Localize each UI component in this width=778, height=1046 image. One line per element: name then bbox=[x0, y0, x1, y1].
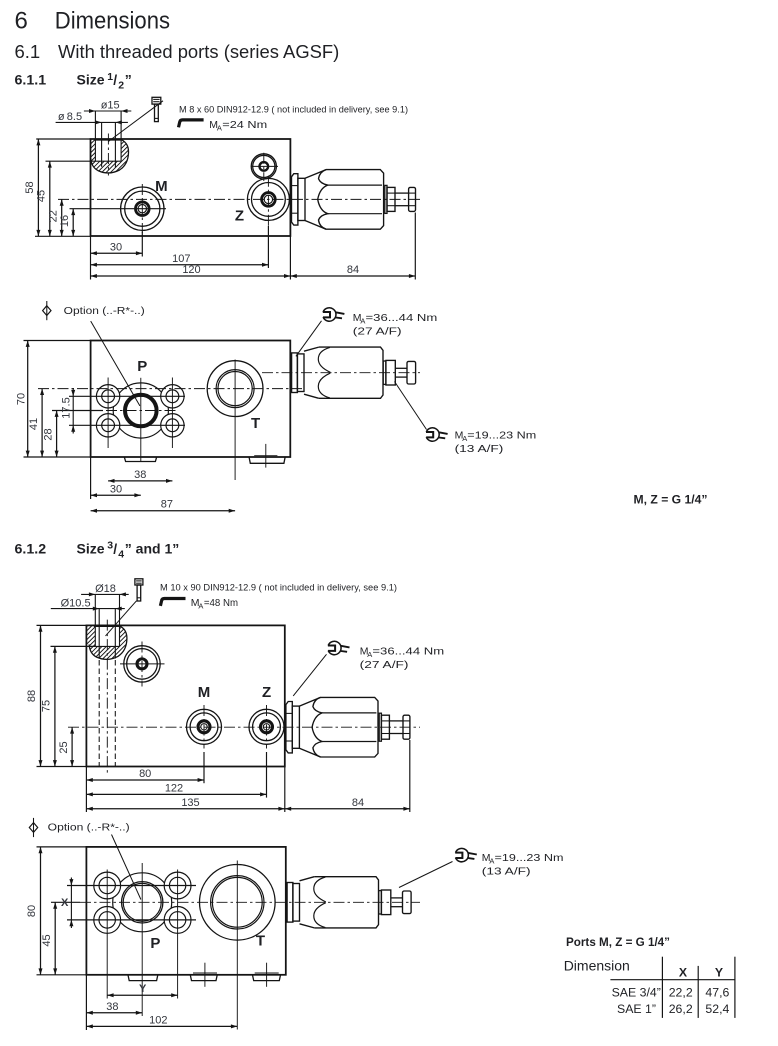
svg-text:T: T bbox=[256, 933, 265, 950]
dim 135 bbox=[85, 767, 87, 813]
svg-text:135: 135 bbox=[181, 797, 199, 809]
allen key icon (drawing 3) bbox=[160, 599, 185, 606]
svg-text:A: A bbox=[217, 123, 222, 132]
svg-text:(13 A/F): (13 A/F) bbox=[482, 865, 531, 877]
svg-text:=36...44 Nm: =36...44 Nm bbox=[366, 312, 438, 324]
svg-text:26,2: 26,2 bbox=[669, 1002, 693, 1016]
dim 25 bbox=[71, 727, 73, 766]
svg-text:2: 2 bbox=[118, 80, 124, 92]
leader line to counterbore bbox=[108, 101, 163, 142]
svg-text:45: 45 bbox=[36, 190, 48, 202]
svg-text:16: 16 bbox=[59, 215, 71, 227]
dim 30 (drawing 1) bbox=[141, 232, 143, 257]
dim 30 (drawing 2) bbox=[90, 457, 92, 499]
svg-text:6.1.1: 6.1.1 bbox=[15, 72, 47, 88]
mounting tabs (drawing 4) bbox=[128, 975, 158, 981]
svg-text:M 8 x 60 DIN912-12.9 ( not inc: M 8 x 60 DIN912-12.9 ( not included in d… bbox=[179, 104, 408, 114]
leader to counterbore (drawing 3) bbox=[106, 601, 137, 636]
dim diameter 8.5 bbox=[56, 121, 128, 123]
svg-text:=19...23 Nm: =19...23 Nm bbox=[495, 852, 564, 864]
dim 16 bbox=[70, 208, 167, 210]
svg-text:Z: Z bbox=[235, 208, 244, 225]
svg-text:SAE 3/4”: SAE 3/4” bbox=[612, 985, 661, 999]
svg-text:17.5: 17.5 bbox=[61, 397, 73, 418]
svg-text:/: / bbox=[113, 72, 117, 88]
mounting tab 1 (drawing 2) bbox=[124, 457, 156, 461]
port P thick ring bbox=[125, 395, 157, 427]
svg-text:Size: Size bbox=[77, 72, 105, 88]
svg-text:Ø18: Ø18 bbox=[95, 583, 116, 595]
leader option to P (drawing 4) bbox=[112, 835, 141, 900]
bolt hole centerlines bbox=[107, 378, 109, 449]
dim 41 bbox=[41, 389, 43, 457]
dim X bbox=[70, 878, 72, 929]
svg-text:M 10 x 90 DIN912-12.9 ( not in: M 10 x 90 DIN912-12.9 ( not included in … bbox=[160, 582, 397, 592]
svg-text:22,2: 22,2 bbox=[669, 985, 693, 999]
svg-text:A: A bbox=[198, 602, 203, 611]
wrench icon 1 bbox=[323, 308, 345, 321]
svg-text:84: 84 bbox=[352, 797, 364, 809]
svg-text:With threaded ports (series AG: With threaded ports (series AGSF) bbox=[58, 41, 339, 62]
wrench icon (drawing 3) bbox=[328, 641, 350, 654]
dim 45 (drawing 4) bbox=[51, 901, 80, 903]
svg-text:6.1: 6.1 bbox=[15, 41, 41, 62]
svg-text:SAE 1”: SAE 1” bbox=[617, 1002, 656, 1016]
dim 87 bbox=[91, 510, 236, 512]
leader option to port P bbox=[91, 321, 140, 406]
port P centerlines bbox=[140, 378, 142, 461]
svg-text:”: ” bbox=[125, 72, 132, 88]
svg-text:Ø10.5: Ø10.5 bbox=[61, 598, 91, 610]
T centerline / dim 41 line bbox=[38, 388, 302, 390]
svg-text:58: 58 bbox=[24, 181, 36, 193]
main centerline (drawing 1) bbox=[58, 198, 420, 200]
svg-text:30: 30 bbox=[110, 241, 122, 253]
allen key icon bbox=[179, 120, 204, 127]
screw M8x60 icon bbox=[152, 97, 161, 104]
centerline (drawing 3) bbox=[68, 726, 420, 728]
drawing 4: valve block outline bbox=[86, 847, 285, 975]
svg-text:30: 30 bbox=[110, 483, 122, 495]
svg-text:Option (..-R*-..): Option (..-R*-..) bbox=[64, 306, 145, 317]
dim 88 bbox=[37, 624, 87, 626]
svg-text:88: 88 bbox=[26, 690, 38, 702]
svg-text:28: 28 bbox=[42, 428, 54, 440]
svg-text:70: 70 bbox=[16, 393, 28, 405]
svg-text:80: 80 bbox=[139, 768, 151, 780]
port P (drawing 4) bbox=[122, 882, 163, 923]
svg-text:=24 Nm: =24 Nm bbox=[222, 119, 267, 131]
main centerline (drawing 4) bbox=[80, 901, 420, 903]
svg-text:M, Z = G 1/4”: M, Z = G 1/4” bbox=[634, 494, 708, 506]
svg-text:(27 A/F): (27 A/F) bbox=[353, 325, 402, 337]
cartridge (drawing 4) bbox=[287, 883, 293, 923]
svg-text:Z: Z bbox=[262, 684, 271, 701]
svg-text:41: 41 bbox=[28, 418, 40, 430]
dim 102 bbox=[86, 1025, 237, 1027]
tab 2 center cross bbox=[265, 444, 267, 468]
dim 122 bbox=[266, 752, 268, 798]
bolt holes around P (drawing 4) bbox=[94, 872, 121, 899]
port P flange circle bbox=[113, 383, 168, 438]
screw M10x90 icon bbox=[135, 579, 143, 585]
dim diameter 18 bbox=[81, 593, 129, 595]
svg-text:120: 120 bbox=[182, 264, 200, 276]
port P vertical centerline bbox=[141, 863, 143, 1016]
dim 45 bbox=[46, 160, 96, 162]
svg-text:102: 102 bbox=[149, 1014, 167, 1026]
svg-text:Y: Y bbox=[139, 983, 147, 995]
port P flange boss (drawing 4) bbox=[113, 873, 172, 932]
relief valve cartridge (drawing 1) bbox=[292, 174, 298, 225]
vent port small circle (drawing 1) bbox=[251, 154, 276, 179]
svg-text:6.1.2: 6.1.2 bbox=[15, 540, 47, 556]
dim 84 (drawing 1) bbox=[414, 213, 416, 280]
svg-text:(13 A/F): (13 A/F) bbox=[455, 443, 504, 455]
svg-text:Dimension: Dimension bbox=[564, 957, 630, 973]
drawing 2: valve block outline (size 1/2 bottom view) bbox=[91, 341, 291, 458]
svg-text:45: 45 bbox=[41, 934, 53, 946]
port T (drawing 4) bbox=[200, 865, 276, 941]
table lines bbox=[661, 957, 663, 1018]
svg-text:=19...23 Nm: =19...23 Nm bbox=[467, 429, 536, 441]
dim 28 bbox=[52, 410, 103, 412]
dim diameter 15 bbox=[84, 110, 131, 112]
svg-text:X: X bbox=[679, 966, 688, 980]
port M (drawing 1) bbox=[121, 187, 164, 230]
svg-text:M: M bbox=[198, 684, 211, 701]
dim 70 bbox=[24, 340, 91, 342]
port T (drawing 2) bbox=[207, 361, 263, 417]
dim Y bbox=[107, 994, 177, 996]
svg-text:38: 38 bbox=[134, 469, 146, 481]
svg-text:75: 75 bbox=[41, 700, 53, 712]
svg-text:52,4: 52,4 bbox=[705, 1002, 729, 1016]
svg-text:47,6: 47,6 bbox=[705, 985, 729, 999]
mounting tab 2 (drawing 2) bbox=[249, 457, 285, 463]
dim diameter 10.5 bbox=[51, 608, 125, 610]
drawing 1: valve block outline (size 1/2 top view) bbox=[91, 139, 291, 236]
svg-text:Y: Y bbox=[715, 966, 723, 980]
dim 107 bbox=[267, 226, 269, 268]
dim 58 bbox=[36, 138, 90, 140]
port Z (drawing 1) bbox=[247, 178, 289, 220]
port Z (drawing 3) bbox=[249, 709, 284, 744]
svg-text:=36...44 Nm: =36...44 Nm bbox=[372, 645, 444, 657]
svg-text:6: 6 bbox=[15, 7, 28, 34]
cartridge (drawing 2) bbox=[292, 353, 298, 393]
dim 120 bbox=[90, 236, 92, 280]
tab center crosses bbox=[204, 963, 206, 987]
svg-text:” and 1”: ” and 1” bbox=[125, 540, 179, 556]
dim 17.5 bbox=[72, 388, 74, 434]
svg-text:122: 122 bbox=[165, 782, 183, 794]
dim 75 bbox=[51, 645, 96, 647]
option symbol bbox=[46, 301, 48, 320]
svg-text:Size: Size bbox=[77, 540, 105, 556]
svg-text:Dimensions: Dimensions bbox=[55, 7, 170, 34]
cartridge (drawing 3) bbox=[286, 702, 292, 753]
hidden bore lines through block bbox=[98, 660, 100, 767]
svg-text:22: 22 bbox=[47, 210, 59, 222]
dim 80 (drawing 3) bbox=[203, 752, 205, 783]
svg-text:84: 84 bbox=[347, 264, 359, 276]
svg-text:4: 4 bbox=[118, 548, 124, 560]
svg-text:80: 80 bbox=[26, 905, 38, 917]
svg-text:25: 25 bbox=[58, 741, 70, 753]
drawing 1: counterbore boss with hatch bbox=[91, 139, 129, 173]
wrench icon 2 bbox=[426, 428, 448, 441]
dim 80 (drawing 4) bbox=[37, 846, 87, 848]
svg-text:/: / bbox=[113, 540, 117, 556]
gauge port circle (drawing 3) bbox=[124, 646, 160, 682]
svg-text:ø 8.5: ø 8.5 bbox=[58, 111, 82, 123]
dim 38 (drawing 4) bbox=[85, 975, 87, 1030]
svg-text:107: 107 bbox=[172, 253, 190, 265]
svg-text:X: X bbox=[61, 897, 69, 909]
drawing 3: counterbore boss with hatch bbox=[89, 626, 127, 660]
svg-text:=48 Nm: =48 Nm bbox=[204, 597, 238, 609]
svg-text:ø15: ø15 bbox=[101, 100, 120, 112]
dim 22 bbox=[61, 199, 63, 236]
port M (drawing 3) bbox=[187, 709, 222, 744]
dim 38 (drawing 2) bbox=[108, 480, 172, 482]
svg-text:T: T bbox=[251, 415, 260, 432]
svg-text:P: P bbox=[150, 935, 160, 952]
svg-text:38: 38 bbox=[106, 1001, 118, 1013]
svg-text:M: M bbox=[155, 178, 168, 195]
drawing 3: valve block outline bbox=[86, 625, 284, 766]
bolt holes around P bbox=[96, 385, 119, 408]
svg-text:Option (..-R*-..): Option (..-R*-..) bbox=[48, 822, 130, 833]
svg-text:Ports M, Z = G 1/4”: Ports M, Z = G 1/4” bbox=[566, 935, 670, 949]
dim 84 (drawing 3) bbox=[409, 740, 411, 812]
svg-text:(27 A/F): (27 A/F) bbox=[360, 659, 409, 671]
bolt hole centerlines (drawing 4) bbox=[106, 870, 108, 999]
svg-text:P: P bbox=[137, 358, 147, 375]
wrench icon (drawing 4) bbox=[455, 848, 477, 861]
svg-text:87: 87 bbox=[161, 499, 173, 511]
option symbol (drawing 4) bbox=[33, 818, 35, 837]
